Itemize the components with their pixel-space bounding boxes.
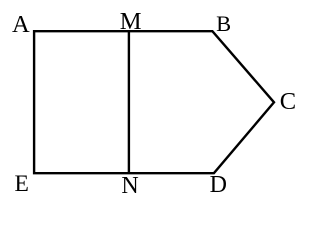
svg-text:A: A (12, 11, 30, 38)
svg-text:B: B (216, 11, 231, 36)
svg-text:C: C (280, 88, 296, 115)
svg-text:E: E (15, 171, 29, 197)
polygon outline A-B-C-D-E (closed boundary: top AB, diagonal BC, diagonal CD, bottom DE, left EA) (34, 31, 274, 173)
svg-text:M: M (120, 8, 142, 35)
svg-text:D: D (210, 172, 227, 198)
svg-text:N: N (121, 173, 138, 199)
wire segment MN (middle vertical) (128, 31, 130, 173)
